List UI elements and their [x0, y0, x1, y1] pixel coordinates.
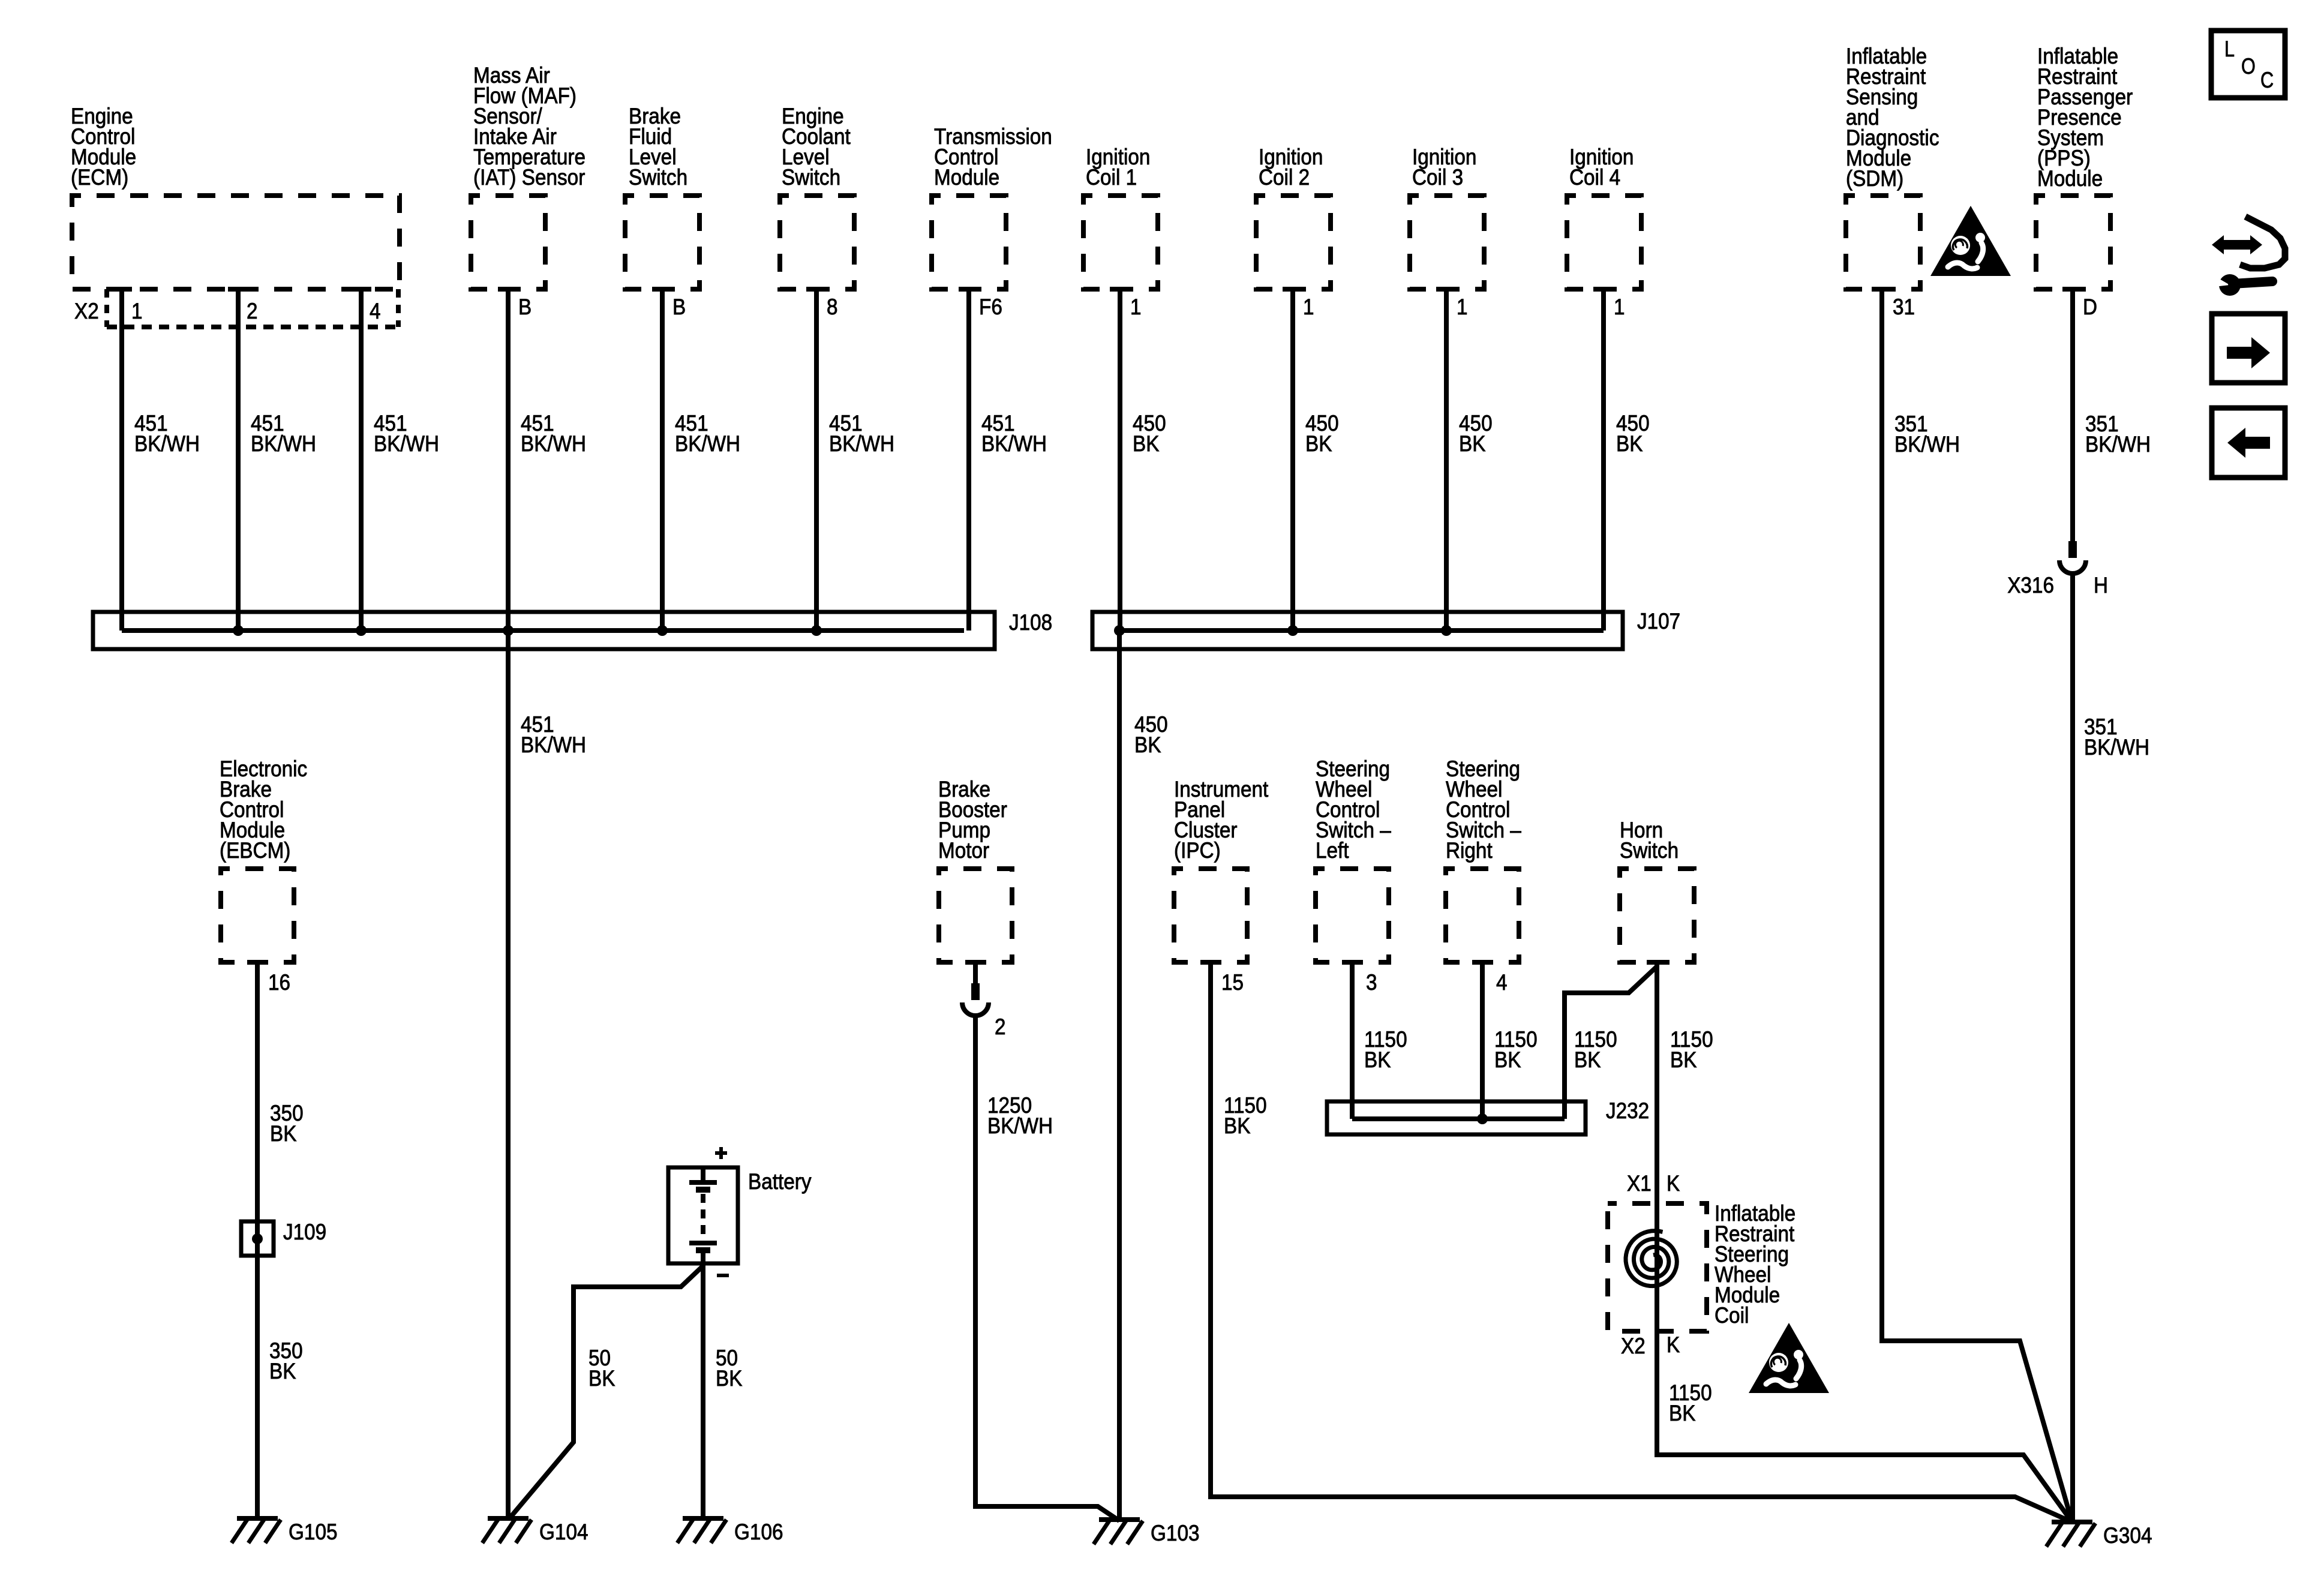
wire 1150 BK IPC to G304 — [1200, 960, 1221, 965]
ground G104 — [488, 1516, 529, 1521]
svg-text:31: 31 — [1893, 295, 1915, 319]
svg-text:Coil 2: Coil 2 — [1259, 165, 1310, 190]
wire MAF to J108 — [498, 287, 518, 292]
wire through coil — [1655, 1203, 1659, 1331]
svg-text:X316: X316 — [2007, 573, 2054, 598]
svg-text:BK/WH: BK/WH — [2084, 735, 2149, 760]
junction dot on J232 — [1477, 1113, 1488, 1124]
wire ECM pin2 to J108 — [228, 287, 248, 292]
svg-text:H: H — [2094, 573, 2108, 598]
svg-text:X1: X1 — [1627, 1171, 1652, 1196]
svg-text:2: 2 — [995, 1014, 1006, 1039]
wire SDM 351 BK/WH down — [1872, 287, 1892, 292]
svg-text:BK/WH: BK/WH — [134, 431, 200, 456]
LOC legend box — [2211, 31, 2285, 98]
junction dots on J107 — [1114, 625, 1125, 636]
diagnostic wrench icon — [2212, 217, 2285, 296]
svg-text:J109: J109 — [283, 1220, 326, 1244]
splice pack J107 — [1092, 612, 1623, 649]
right arrow box — [2212, 314, 2285, 383]
svg-text:BK: BK — [269, 1359, 296, 1383]
svg-text:Module: Module — [2037, 166, 2103, 191]
svg-text:Coil 4: Coil 4 — [1569, 165, 1620, 190]
svg-text:(ECM): (ECM) — [71, 165, 128, 190]
ECM connector X2 strip — [107, 325, 398, 329]
svg-text:C: C — [2260, 68, 2274, 92]
svg-text:(EBCM): (EBCM) — [220, 838, 290, 863]
airbag warning icon near SDM — [1930, 206, 2011, 276]
splice pack J108 — [93, 612, 995, 649]
svg-text:J108: J108 — [1009, 610, 1052, 635]
wire 1150 BK horn to coil X1 — [1655, 962, 1659, 1203]
svg-text:15: 15 — [1221, 970, 1244, 995]
svg-text:BK: BK — [1305, 431, 1332, 456]
wire 1150 BK right switch to J232 — [1472, 960, 1493, 965]
svg-text:F6: F6 — [979, 295, 1002, 319]
svg-text:BK: BK — [1669, 1401, 1696, 1425]
svg-text:1: 1 — [1130, 295, 1142, 319]
svg-text:BK: BK — [270, 1121, 297, 1146]
left arrow box — [2212, 408, 2285, 478]
battery — [668, 1167, 738, 1263]
svg-text:BK/WH: BK/WH — [829, 431, 894, 456]
airbag warning icon near coil — [1749, 1323, 1829, 1393]
svg-text:BK: BK — [1224, 1113, 1251, 1138]
svg-text:(SDM): (SDM) — [1846, 166, 1903, 191]
wire booster pin 2 — [965, 960, 986, 965]
svg-text:Right: Right — [1446, 838, 1493, 863]
ground G304 — [2052, 1520, 2092, 1524]
wire PPS 351 to X316 — [2062, 287, 2083, 292]
wire ECLS to J108 — [806, 287, 827, 292]
ground G106 — [683, 1516, 723, 1521]
booster inline connector 2 — [971, 983, 980, 1000]
svg-text:Switch: Switch — [782, 165, 840, 190]
svg-text:4: 4 — [370, 299, 381, 323]
wire coil 2 to J107 — [1283, 287, 1303, 292]
ground G103 — [1099, 1517, 1140, 1522]
svg-text:BK/WH: BK/WH — [521, 733, 586, 757]
svg-text:Left: Left — [1316, 838, 1349, 863]
svg-text:BK: BK — [1459, 431, 1486, 456]
wire 350 BK EBCM to J109 — [247, 960, 268, 965]
svg-text:G304: G304 — [2103, 1523, 2152, 1548]
wire ECM pin4 to J108 — [351, 287, 371, 292]
wire BFLS to J108 — [652, 287, 672, 292]
svg-text:G105: G105 — [289, 1520, 338, 1544]
svg-text:Switch: Switch — [1620, 838, 1679, 863]
svg-text:BK/WH: BK/WH — [675, 431, 740, 456]
clockspring spiral — [1626, 1231, 1677, 1286]
svg-text:L: L — [2224, 37, 2235, 61]
svg-text:1: 1 — [1614, 295, 1625, 319]
svg-text:Module: Module — [934, 165, 999, 190]
wire 50 BK battery to G104 — [510, 1266, 703, 1518]
splice pack J232 — [1327, 1101, 1586, 1134]
wire horn to J232 — [1647, 960, 1667, 965]
svg-text:G104: G104 — [539, 1520, 588, 1544]
wire 1150 BK left switch to J232 — [1342, 960, 1362, 965]
svg-text:BK: BK — [1364, 1047, 1391, 1072]
wire J107 internal bus conductor — [1119, 628, 1604, 633]
svg-text:1: 1 — [1457, 295, 1468, 319]
wire J108 internal bus conductor — [122, 628, 964, 633]
svg-text:J232: J232 — [1606, 1098, 1649, 1123]
svg-text:K: K — [1667, 1171, 1680, 1196]
svg-text:3: 3 — [1366, 970, 1377, 995]
splice J109 — [241, 1221, 274, 1256]
svg-text:BK: BK — [1616, 431, 1643, 456]
ground G105 — [237, 1516, 278, 1521]
svg-text:G103: G103 — [1151, 1521, 1200, 1545]
svg-text:2: 2 — [247, 299, 258, 323]
wire TCM to J108 — [959, 287, 979, 292]
wire 451 BK/WH J108 to G104 — [506, 631, 511, 1518]
svg-text:BK/WH: BK/WH — [251, 431, 316, 456]
svg-text:BK: BK — [716, 1366, 743, 1391]
svg-text:1: 1 — [131, 299, 143, 323]
svg-text:BK: BK — [1133, 431, 1160, 456]
svg-text:BK/WH: BK/WH — [374, 431, 439, 456]
svg-text:Coil 1: Coil 1 — [1086, 165, 1137, 190]
svg-text:1: 1 — [1303, 295, 1314, 319]
svg-text:G106: G106 — [734, 1520, 783, 1544]
svg-text:BK/WH: BK/WH — [1894, 432, 1960, 457]
svg-text:BK: BK — [1134, 733, 1161, 757]
wire coil 4 to J107 — [1593, 287, 1614, 292]
svg-text:X2: X2 — [1621, 1334, 1646, 1358]
wire 50 BK battery to G106 — [701, 1263, 705, 1518]
svg-text:BK/WH: BK/WH — [521, 431, 586, 456]
svg-text:J107: J107 — [1637, 609, 1680, 634]
svg-text:(IAT) Sensor: (IAT) Sensor — [473, 165, 585, 190]
wire 450 BK J107 to G103 — [1117, 631, 1122, 1520]
svg-text:BK/WH: BK/WH — [2085, 432, 2151, 457]
wire 1250 BK/WH booster to G103 — [975, 1016, 1119, 1521]
connector X316 — [2068, 541, 2077, 558]
svg-text:D: D — [2083, 295, 2097, 319]
wire 350 BK J109 to G105 — [255, 1256, 260, 1518]
svg-text:BK/WH: BK/WH — [987, 1113, 1053, 1138]
svg-text:BK/WH: BK/WH — [981, 431, 1047, 456]
svg-text:4: 4 — [1496, 970, 1508, 995]
svg-text:BK: BK — [1670, 1047, 1697, 1072]
wire coil 3 to J107 — [1436, 287, 1457, 292]
junction dots on J108 — [233, 625, 244, 636]
svg-text:K: K — [1667, 1332, 1680, 1357]
svg-text:8: 8 — [827, 295, 838, 319]
svg-text:BK: BK — [1494, 1047, 1521, 1072]
svg-text:Battery: Battery — [748, 1169, 812, 1194]
svg-text:BK: BK — [588, 1366, 615, 1391]
svg-text:Coil: Coil — [1715, 1303, 1749, 1328]
wire J232 internal bus conductor — [1352, 1116, 1565, 1121]
svg-text:Switch: Switch — [629, 165, 687, 190]
svg-text:Coil 3: Coil 3 — [1412, 165, 1463, 190]
wire 351 BK/WH X316 to G304 — [2070, 574, 2075, 1522]
svg-text:(IPC): (IPC) — [1174, 838, 1221, 863]
svg-text:B: B — [672, 295, 686, 319]
wire ECM pin1 to J108 — [112, 287, 132, 292]
svg-text:X2: X2 — [74, 299, 99, 323]
svg-text:BK: BK — [1574, 1047, 1601, 1072]
svg-text:Motor: Motor — [938, 838, 989, 863]
wire 1150 BK coil to G304 — [1657, 1331, 2072, 1522]
svg-text:O: O — [2241, 54, 2256, 79]
svg-text:B: B — [518, 295, 532, 319]
svg-text:16: 16 — [268, 970, 290, 995]
wire coil 1 to J107 — [1110, 287, 1130, 292]
